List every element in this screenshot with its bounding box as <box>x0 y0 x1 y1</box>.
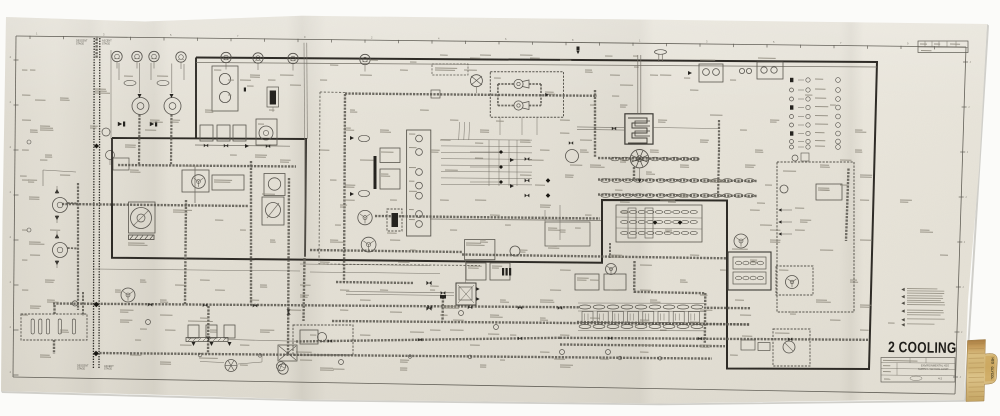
svg-text:H2O: H2O <box>991 358 995 365</box>
svg-text:GLYCOL: GLYCOL <box>990 367 994 380</box>
